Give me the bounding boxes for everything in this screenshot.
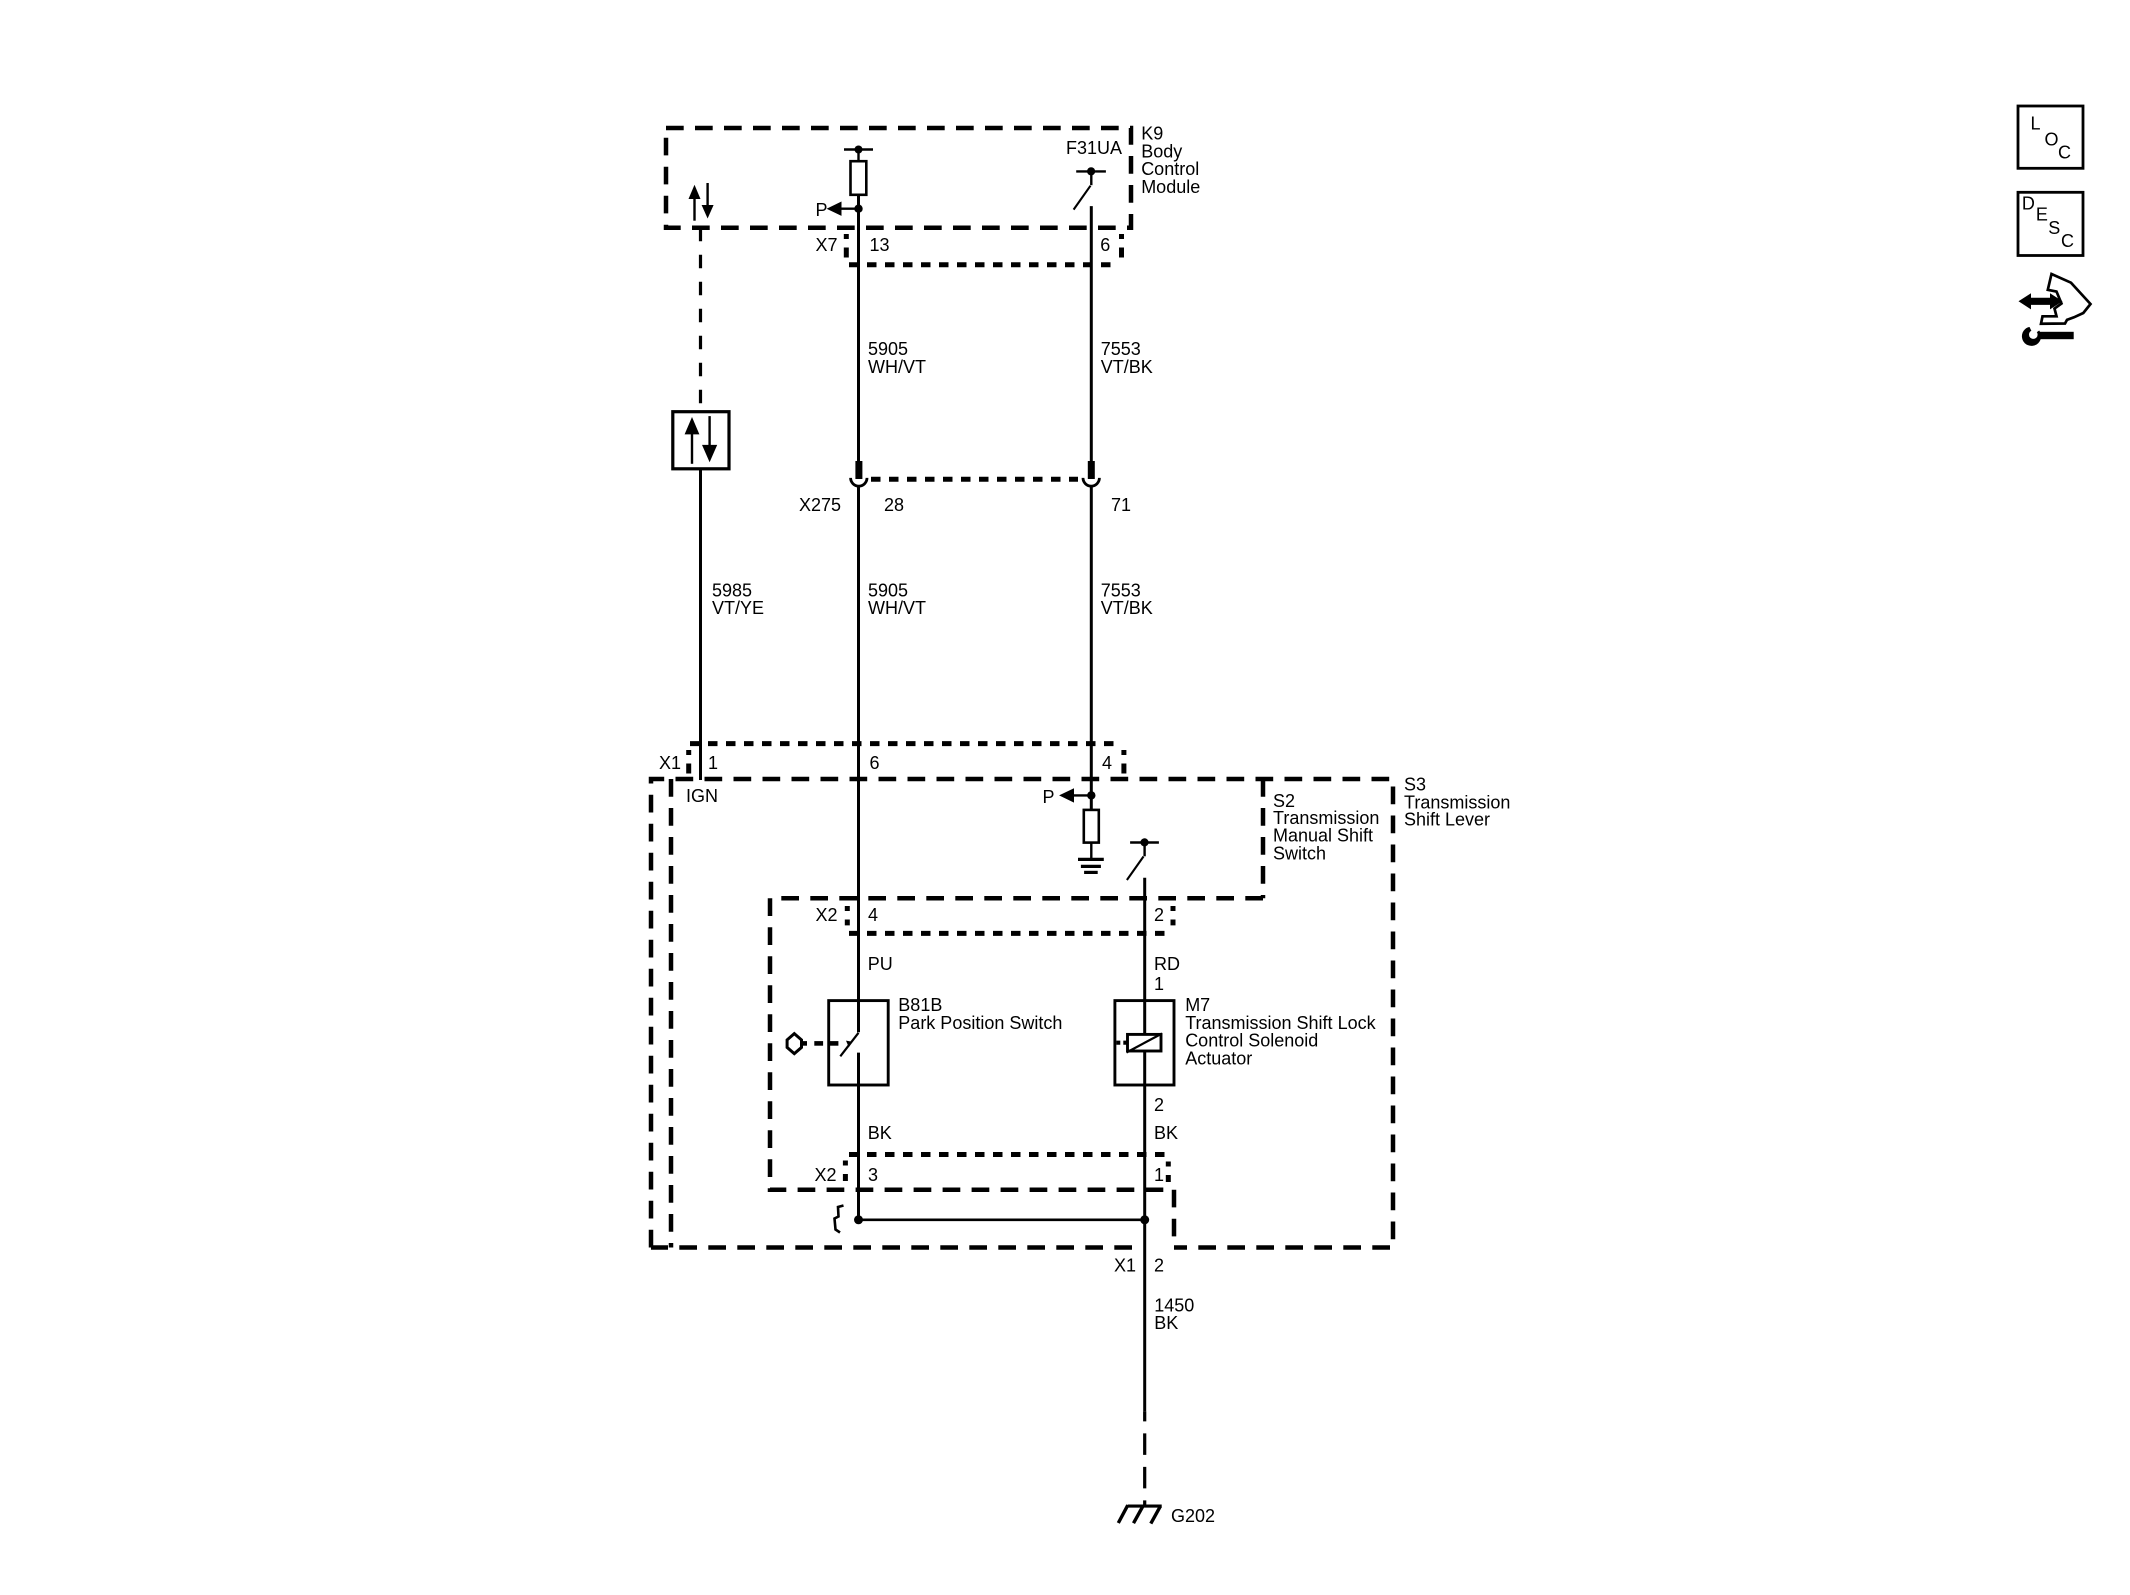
K9 label <box>1141 124 1200 197</box>
wire below M7 (pin 2) <box>1143 1051 1146 1411</box>
M7 solenoid symbol <box>1116 1034 1162 1053</box>
svg-text:WH/VT: WH/VT <box>868 598 926 618</box>
svg-text:E: E <box>2036 205 2048 225</box>
svg-text:Shift Lever: Shift Lever <box>1404 809 1490 829</box>
svg-text:5905: 5905 <box>868 339 908 359</box>
svg-text:PU: PU <box>868 954 893 974</box>
svg-text:13: 13 <box>870 235 890 255</box>
resistor (S2) <box>1084 810 1099 859</box>
up/down arrows symbol inside K9 <box>689 183 714 221</box>
svg-text:2: 2 <box>1154 905 1164 925</box>
X275 labels <box>799 495 1131 515</box>
svg-text:BK: BK <box>868 1123 892 1143</box>
DESC box icon <box>2018 192 2083 255</box>
S3 Transmission Shift Lever box <box>651 779 1393 1248</box>
wire label 5905 WH/VT (upper) <box>868 339 926 377</box>
svg-text:X2: X2 <box>814 1165 836 1185</box>
wire label 1450 BK <box>1154 1295 1194 1333</box>
fuse F31UA symbol <box>1074 167 1106 209</box>
wire label BK (left) <box>868 1123 892 1143</box>
resistor R (in K9) top tap <box>844 146 873 162</box>
svg-text:X7: X7 <box>815 235 837 255</box>
svg-text:1: 1 <box>1154 1165 1164 1185</box>
svg-text:S: S <box>2048 218 2060 238</box>
wire label RD pin 1 <box>1154 954 1180 994</box>
inner dashed box around B81B and M7 <box>770 898 1174 1247</box>
svg-text:BK: BK <box>1154 1123 1178 1143</box>
svg-text:7553: 7553 <box>1101 339 1141 359</box>
S2 Transmission Manual Shift Switch box <box>671 779 1263 1248</box>
wire label 5905 WH/VT (lower) <box>868 580 926 618</box>
wire (dashed) from K9 to position indicator box <box>699 228 702 412</box>
dashed wire to ground <box>1143 1411 1146 1504</box>
svg-text:D: D <box>2022 193 2035 213</box>
connector X2 (bottom row) <box>814 1155 1168 1186</box>
svg-text:Actuator: Actuator <box>1185 1048 1252 1068</box>
svg-text:3: 3 <box>868 1165 878 1185</box>
svg-text:VT/BK: VT/BK <box>1101 357 1153 377</box>
M7 label <box>1185 995 1376 1068</box>
svg-text:O: O <box>2045 129 2059 149</box>
wire label 7553 VT/BK (upper) <box>1101 339 1153 377</box>
wire label 5985 VT/YE <box>712 580 764 618</box>
node P arrow (S2) <box>1042 787 1095 807</box>
B81B Park Position Switch box <box>829 1001 889 1085</box>
wire 5905 main vertical (upper part, resistor to B81B pivot) <box>857 195 860 1033</box>
svg-text:C: C <box>2061 231 2074 251</box>
connector X1 pin 2 labels <box>1114 1256 1164 1276</box>
wire BK below B81B <box>857 1053 860 1220</box>
position indicator box with up/down arrows <box>673 412 729 469</box>
wire label PU <box>868 954 893 974</box>
svg-text:71: 71 <box>1111 495 1131 515</box>
B81B hexagon actuator <box>787 1034 838 1054</box>
svg-text:4: 4 <box>1102 753 1112 773</box>
svg-text:X1: X1 <box>659 753 681 773</box>
wire IGN solid from box to S3 <box>699 469 702 780</box>
G202 label <box>1171 1506 1215 1526</box>
svg-text:6: 6 <box>870 753 880 773</box>
in-line connector X275 pin 28 <box>851 461 867 486</box>
IC ground (S2) <box>1078 859 1104 872</box>
svg-text:P: P <box>815 200 827 220</box>
connector X7 <box>815 234 1121 265</box>
svg-text:G202: G202 <box>1171 1506 1215 1526</box>
M7 pin 2 label <box>1154 1095 1164 1115</box>
svg-text:X1: X1 <box>1114 1256 1136 1276</box>
svg-text:Switch: Switch <box>1273 843 1326 863</box>
svg-text:6: 6 <box>1100 235 1110 255</box>
K9 Body Control Module box <box>666 128 1131 228</box>
wire RD from switch to M7 <box>1143 878 1146 1035</box>
svg-text:28: 28 <box>884 495 904 515</box>
fuse F31UA label <box>1066 138 1122 158</box>
svg-text:VT/YE: VT/YE <box>712 598 764 618</box>
svg-text:VT/BK: VT/BK <box>1101 598 1153 618</box>
X275 dotted line <box>871 477 1078 482</box>
IGN label <box>686 786 718 806</box>
svg-text:X2: X2 <box>815 905 837 925</box>
junction node left <box>854 1215 863 1224</box>
svg-text:X275: X275 <box>799 495 841 515</box>
B81B switch blade <box>840 1033 858 1057</box>
svg-text:L: L <box>2031 114 2041 134</box>
M7 Transmission Shift Lock Control Solenoid Actuator box <box>1115 1001 1174 1085</box>
svg-text:2: 2 <box>1154 1256 1164 1276</box>
svg-text:1: 1 <box>1154 974 1164 994</box>
svg-text:C: C <box>2058 142 2071 162</box>
splice clip symbol <box>835 1206 844 1233</box>
svg-text:Park Position Switch: Park Position Switch <box>898 1013 1062 1033</box>
junction node right <box>1140 1215 1149 1224</box>
svg-text:IGN: IGN <box>686 786 718 806</box>
svg-text:RD: RD <box>1154 954 1180 974</box>
svg-text:Module: Module <box>1141 177 1200 197</box>
connector X2 (top row) <box>815 905 1173 933</box>
S2 label <box>1273 791 1379 863</box>
svg-text:4: 4 <box>868 905 878 925</box>
in-line connector X275 pin 71 <box>1083 461 1099 486</box>
svg-text:BK: BK <box>1154 1313 1178 1333</box>
B81B label <box>898 995 1062 1033</box>
service icon arrow outline <box>2041 274 2091 324</box>
switch S2 (manual shift) <box>1127 838 1159 880</box>
LOC box icon <box>2018 106 2083 168</box>
svg-text:WH/VT: WH/VT <box>868 357 926 377</box>
node P arrow (K9) <box>815 200 862 220</box>
service icon wrench <box>2022 325 2074 346</box>
ground G202 symbol <box>1118 1505 1161 1523</box>
horizontal BK wire <box>859 1219 1145 1222</box>
svg-text:2: 2 <box>1154 1095 1164 1115</box>
service icon double arrow <box>2019 293 2063 309</box>
wire label BK (right) <box>1154 1123 1178 1143</box>
wire label 7553 VT/BK (lower) <box>1101 580 1153 618</box>
svg-text:F31UA: F31UA <box>1066 138 1122 158</box>
svg-text:P: P <box>1042 787 1054 807</box>
resistor R body <box>851 161 867 195</box>
S3 label <box>1404 775 1510 830</box>
wire 7553 vertical (upper, to resistor in S2) <box>1090 206 1093 810</box>
connector X1 (top row) <box>659 744 1124 774</box>
svg-text:1: 1 <box>708 753 718 773</box>
